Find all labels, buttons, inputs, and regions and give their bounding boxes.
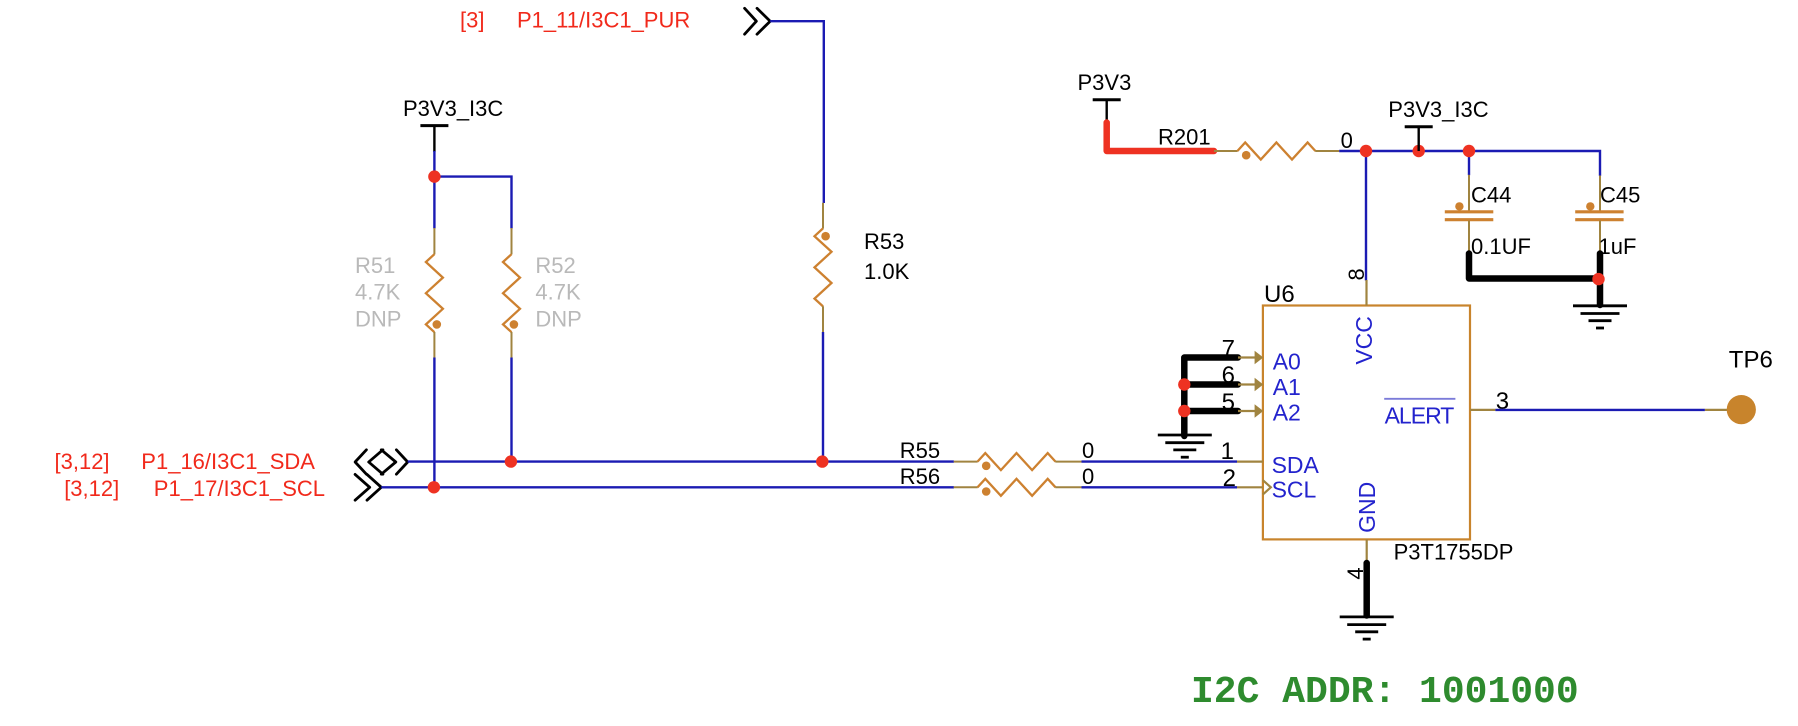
value label R52 4.7K DNP: [535, 253, 581, 331]
svg-text:0.1UF: 0.1UF: [1471, 234, 1531, 259]
pin number 1: [1221, 438, 1234, 465]
resistor R52 (DNP): [503, 228, 520, 358]
svg-text:4.7K: 4.7K: [535, 280, 581, 305]
node junction A2: [1178, 405, 1190, 417]
connector P1_16/I3C1_SDA (bidirectional): [355, 450, 408, 474]
pin 5 A2 stub: [1238, 404, 1263, 417]
label R56: [900, 464, 940, 489]
wire P3V3 thick red: [1107, 123, 1214, 152]
node R52/SDA junction: [505, 455, 517, 467]
wire C45 tail thick black to ground: [1597, 254, 1604, 306]
pin 2 SCL stub with clock arrow: [1237, 480, 1271, 494]
pin number 8 (rotated): [1344, 268, 1369, 280]
svg-text:VCC: VCC: [1351, 316, 1377, 365]
pin 6 A1 stub: [1238, 378, 1263, 391]
svg-text:0: 0: [1341, 128, 1353, 153]
svg-text:R53: R53: [864, 229, 904, 254]
label R55: [900, 438, 940, 463]
wire PUR net from connector to R53: [770, 21, 824, 203]
svg-text:1uF: 1uF: [1599, 234, 1637, 259]
svg-text:4.7K: 4.7K: [355, 280, 401, 305]
wire R52 to SDA: [510, 358, 512, 462]
pin 1 SDA stub: [1237, 461, 1263, 463]
capacitor C44: [1445, 175, 1494, 253]
svg-text:GND: GND: [1354, 482, 1380, 533]
resistor R53: [815, 203, 832, 332]
wire R51 to SCL: [433, 358, 435, 488]
svg-text:7: 7: [1222, 336, 1235, 363]
value 1uF: [1599, 234, 1637, 259]
power symbol P3V3: [1093, 100, 1121, 123]
svg-text:ALERT: ALERT: [1385, 403, 1455, 429]
svg-text:R55: R55: [900, 438, 940, 463]
svg-text:I2C ADDR: 1001000: I2C ADDR: 1001000: [1191, 671, 1579, 714]
connector P1_11/I3C1_PUR (double chevron): [745, 8, 771, 34]
value label R53 1.0K: [864, 229, 910, 284]
ground under address pins: [1158, 435, 1212, 457]
svg-text:R51: R51: [355, 253, 395, 278]
ground under U6: [1340, 617, 1394, 639]
pin number 2: [1223, 465, 1236, 492]
wire SDA main: [408, 460, 954, 462]
resistor R56: [954, 479, 1082, 496]
pin name A0: [1273, 349, 1301, 375]
op-amp U6 body (P3T1755DP): [1263, 306, 1470, 540]
label P3V3_I3C (right): [1388, 97, 1488, 122]
wire branch to R52: [434, 177, 511, 229]
svg-text:[3,12]: [3,12]: [64, 476, 119, 501]
svg-text:P1_17/I3C1_SCL: P1_17/I3C1_SCL: [154, 476, 325, 501]
pin 3 ALERT stub: [1470, 409, 1495, 411]
svg-text:[3]: [3]: [460, 8, 484, 33]
wire R55 to SDA pin: [1082, 460, 1238, 462]
pin number 6: [1222, 362, 1235, 389]
svg-text:P1_16/I3C1_SDA: P1_16/I3C1_SDA: [141, 449, 315, 474]
wire SCL main: [381, 486, 954, 488]
svg-text:DNP: DNP: [535, 306, 581, 331]
value 0.1UF: [1471, 234, 1531, 259]
svg-text:P3T1755DP: P3T1755DP: [1394, 540, 1514, 565]
svg-text:SDA: SDA: [1272, 452, 1320, 478]
test point TP6 pad: [1727, 395, 1756, 424]
value label R51 4.7K DNP: [355, 253, 401, 331]
svg-text:0: 0: [1082, 464, 1094, 489]
label TP6: [1729, 347, 1773, 374]
svg-text:1: 1: [1221, 438, 1234, 465]
svg-text:P3V3_I3C: P3V3_I3C: [1388, 97, 1488, 122]
pin number 7: [1222, 336, 1235, 363]
node R51/SCL junction: [428, 481, 440, 493]
thick wire GND pin to ground: [1363, 563, 1370, 616]
label [3,12] P1_17/I3C1_SCL: [64, 476, 325, 501]
svg-text:[3,12]: [3,12]: [55, 449, 110, 474]
svg-text:8: 8: [1344, 268, 1369, 280]
pin name SCL: [1272, 477, 1317, 503]
svg-text:C44: C44: [1471, 183, 1511, 208]
label C44: [1471, 183, 1511, 208]
svg-text:R52: R52: [535, 253, 575, 278]
thick wire A0/A1/A2 to ground: [1184, 358, 1238, 437]
svg-text:C45: C45: [1600, 183, 1640, 208]
power symbol P3V3_I3C (right): [1405, 127, 1433, 151]
node R53/SDA junction: [816, 455, 828, 467]
svg-text:DNP: DNP: [355, 306, 401, 331]
node junction at P3V3_I3C branch: [428, 170, 440, 182]
resistor R201: [1214, 143, 1339, 160]
part label P3T1755DP: [1394, 540, 1514, 565]
svg-text:0: 0: [1082, 438, 1094, 463]
pin name SDA: [1272, 452, 1320, 478]
svg-text:R56: R56: [900, 464, 940, 489]
node junction at cap ground: [1592, 273, 1604, 285]
resistor R55: [954, 453, 1082, 470]
label [3,12] P1_16/I3C1_SDA: [55, 449, 316, 474]
label C45: [1600, 183, 1640, 208]
label P3V3: [1078, 70, 1132, 95]
pin name ALERT with overline: [1384, 399, 1455, 429]
pin name A2: [1273, 399, 1301, 425]
wire R56 to SCL pin: [1082, 486, 1238, 488]
svg-text:P3V3: P3V3: [1078, 70, 1132, 95]
wire top net R201 to C45: [1339, 151, 1600, 176]
svg-text:2: 2: [1223, 465, 1236, 492]
wire C44 tail thick black to C45 tail: [1469, 254, 1600, 279]
value 0 (R55): [1082, 438, 1094, 463]
power symbol P3V3_I3C (left): [420, 126, 448, 152]
ground under C45: [1573, 306, 1627, 328]
svg-text:P3V3_I3C: P3V3_I3C: [403, 96, 503, 121]
wire VCC drop: [1365, 151, 1367, 281]
connector P1_17/I3C1_SCL (double chevron): [355, 474, 381, 500]
wire R53 to SDA: [822, 332, 824, 462]
test point TP6 lead: [1705, 409, 1728, 411]
svg-text:U6: U6: [1264, 281, 1295, 308]
label [3] P1_11/I3C1_PUR: [460, 8, 690, 33]
pin name A1: [1273, 374, 1301, 400]
node junction at R201/VCC: [1360, 145, 1372, 157]
pin name GND: [1354, 482, 1380, 533]
label R201: [1158, 125, 1211, 150]
svg-text:TP6: TP6: [1729, 347, 1773, 374]
note I2C ADDR: 1001000: [1191, 671, 1579, 714]
node junction A1: [1178, 378, 1190, 390]
svg-text:A0: A0: [1273, 349, 1301, 375]
svg-text:SCL: SCL: [1272, 477, 1317, 503]
pin number 5: [1222, 389, 1235, 416]
label P3V3_I3C (left): [403, 96, 503, 121]
svg-text:A2: A2: [1273, 399, 1301, 425]
value 0 (R201): [1341, 128, 1353, 153]
pin name VCC: [1351, 316, 1377, 365]
pin number 4 (rotated): [1343, 567, 1368, 579]
wire C44 drop: [1468, 151, 1470, 175]
wire ALERT to TP6: [1495, 409, 1705, 411]
pin 8 VCC stub: [1365, 280, 1367, 306]
resistor R51 (DNP): [426, 228, 443, 358]
pin 7 A0 stub: [1238, 351, 1263, 364]
node junction at P3V3_I3C tap: [1413, 145, 1425, 157]
svg-text:5: 5: [1222, 389, 1235, 416]
pin 4 GND stub: [1366, 539, 1368, 563]
svg-text:P1_11/I3C1_PUR: P1_11/I3C1_PUR: [517, 8, 690, 33]
pin number 3: [1496, 388, 1509, 415]
node junction at C44: [1463, 145, 1475, 157]
refdes U6: [1264, 281, 1295, 308]
svg-text:6: 6: [1222, 362, 1235, 389]
capacitor C45: [1575, 176, 1623, 254]
svg-text:R201: R201: [1158, 125, 1211, 150]
wire P3V3_I3C down to R51: [433, 151, 435, 229]
svg-text:1.0K: 1.0K: [864, 259, 910, 284]
svg-text:A1: A1: [1273, 374, 1301, 400]
value 0 (R56): [1082, 464, 1094, 489]
